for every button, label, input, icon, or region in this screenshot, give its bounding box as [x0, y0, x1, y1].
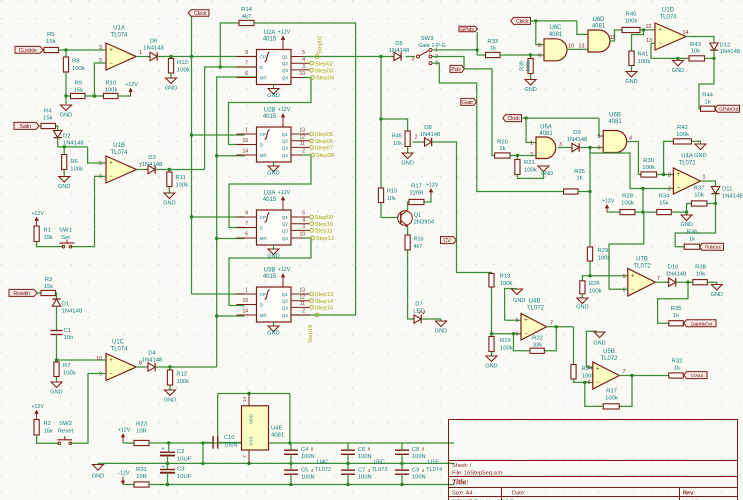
svg-text:−: −: [109, 174, 113, 180]
svg-text:SW3: SW3: [421, 36, 434, 42]
svg-text:100k: 100k: [63, 371, 76, 377]
svg-text:13: 13: [579, 44, 585, 50]
svg-text:1N4148: 1N4148: [389, 48, 410, 54]
svg-text:R34: R34: [659, 194, 671, 200]
svg-text:GND: GND: [267, 171, 279, 177]
svg-text:D2: D2: [63, 134, 71, 140]
svg-text:100N: 100N: [412, 475, 426, 481]
svg-text:R37: R37: [694, 186, 705, 192]
svg-text:Step08: Step08: [316, 153, 334, 159]
svg-text:100k: 100k: [605, 396, 618, 402]
svg-text:4015: 4015: [263, 197, 277, 203]
svg-text:D6: D6: [150, 39, 158, 45]
svg-text:3: 3: [412, 57, 415, 63]
svg-text:Step06: Step06: [315, 139, 333, 145]
svg-text:U6A: U6A: [540, 125, 552, 131]
svg-text:R33: R33: [487, 39, 499, 45]
svg-text:C8: C8: [412, 447, 419, 453]
svg-text:7: 7: [657, 276, 660, 282]
svg-text:Q4: Q4: [282, 76, 289, 81]
svg-text:1k: 1k: [689, 237, 695, 243]
svg-text:GND: GND: [60, 113, 72, 119]
svg-text:GND: GND: [58, 184, 70, 190]
svg-text:R9: R9: [75, 81, 83, 87]
svg-text:2: 2: [668, 187, 671, 193]
svg-text:GPulsOut: GPulsOut: [719, 107, 739, 113]
svg-text:Q2: Q2: [282, 299, 289, 304]
svg-text:Step14: Step14: [315, 299, 334, 305]
svg-text:TL074: TL074: [426, 467, 442, 473]
svg-text:10k: 10k: [393, 141, 402, 147]
svg-text:C6: C6: [358, 447, 365, 453]
svg-text:15k: 15k: [44, 284, 54, 290]
svg-text:U3A: U3A: [264, 191, 276, 197]
svg-text:+: +: [524, 318, 528, 324]
svg-text:U1D: U1D: [662, 8, 675, 14]
svg-text:+12V: +12V: [31, 211, 44, 217]
svg-text:TL074: TL074: [110, 33, 128, 39]
svg-text:15k: 15k: [74, 88, 84, 94]
svg-text:CP: CP: [260, 132, 266, 137]
svg-text:Step02: Step02: [315, 61, 333, 67]
svg-text:4015: 4015: [263, 37, 277, 43]
svg-text:R25: R25: [574, 169, 586, 175]
svg-text:U1E: U1E: [428, 459, 439, 465]
svg-text:2: 2: [415, 135, 418, 141]
svg-text:File: 16StepSeq.sch: File: 16StepSeq.sch: [452, 470, 502, 476]
svg-text:D3: D3: [148, 155, 156, 161]
svg-text:R11: R11: [175, 175, 185, 181]
svg-text:GateNivOut: GateNivOut: [691, 321, 713, 326]
svg-text:+12V: +12V: [278, 190, 291, 196]
svg-text:+12V: +12V: [278, 267, 291, 273]
svg-text:1: 1: [139, 50, 142, 56]
svg-text:Q4: Q4: [282, 236, 289, 241]
svg-text:+12V: +12V: [602, 199, 615, 205]
svg-text:15k: 15k: [46, 39, 56, 45]
svg-text:CV: CV: [444, 238, 452, 244]
svg-text:MR: MR: [260, 153, 268, 158]
svg-text:Q2: Q2: [282, 139, 289, 144]
svg-text:D9: D9: [573, 130, 581, 136]
svg-text:Puls: Puls: [451, 67, 461, 73]
svg-text:6: 6: [245, 232, 248, 238]
svg-text:GND: GND: [267, 93, 279, 99]
svg-text:+12V: +12V: [125, 82, 138, 88]
svg-text:100k: 100k: [676, 132, 689, 138]
svg-text:Clock: Clock: [508, 116, 521, 122]
svg-text:Q3: Q3: [282, 68, 289, 73]
svg-text:GND: GND: [164, 398, 176, 404]
svg-text:9: 9: [99, 372, 102, 378]
svg-text:100k: 100k: [70, 167, 83, 173]
svg-text:5: 5: [623, 274, 626, 280]
svg-text:GND: GND: [711, 292, 723, 298]
svg-text:−: −: [677, 186, 681, 192]
svg-text:R20: R20: [497, 140, 509, 146]
svg-text:R7: R7: [63, 363, 71, 369]
svg-text:R13: R13: [177, 60, 189, 66]
svg-text:R26: R26: [589, 281, 601, 287]
svg-text:11: 11: [300, 141, 305, 147]
svg-text:100N: 100N: [301, 454, 315, 460]
svg-text:14: 14: [242, 397, 248, 403]
svg-text:R45: R45: [392, 134, 402, 140]
svg-text:1: 1: [703, 175, 706, 181]
svg-text:7: 7: [245, 221, 248, 227]
svg-text:GND: GND: [485, 364, 497, 370]
svg-text:1N4148: 1N4148: [143, 46, 164, 52]
svg-text:Reset: Reset: [58, 429, 74, 435]
svg-text:Step12: Step12: [316, 236, 334, 242]
svg-text:Q1: Q1: [282, 292, 289, 297]
svg-text:GND: GND: [524, 87, 536, 93]
svg-text:100k: 100k: [621, 201, 634, 207]
svg-text:100N: 100N: [224, 443, 238, 449]
svg-text:R44: R44: [702, 93, 714, 99]
svg-text:100k: 100k: [175, 183, 188, 189]
svg-text:+: +: [596, 367, 600, 373]
svg-text:1N4148: 1N4148: [567, 137, 588, 143]
svg-text:+: +: [162, 464, 165, 470]
svg-text:R1: R1: [44, 228, 52, 234]
svg-text:+12V: +12V: [278, 30, 291, 36]
svg-text:4: 4: [302, 218, 305, 224]
svg-text:1k: 1k: [673, 313, 679, 319]
svg-text:TL072: TL072: [600, 356, 618, 362]
svg-text:+12V: +12V: [118, 428, 131, 434]
svg-text:2N3904: 2N3904: [414, 220, 435, 226]
svg-text:100k: 100k: [500, 281, 513, 287]
svg-text:Resetin: Resetin: [13, 291, 29, 297]
svg-text:4015: 4015: [263, 114, 277, 120]
svg-text:MR: MR: [260, 313, 268, 318]
svg-text:R23: R23: [136, 422, 148, 428]
svg-text:GND: GND: [267, 331, 279, 337]
svg-text:R38: R38: [695, 265, 707, 271]
svg-text:5: 5: [598, 134, 601, 140]
svg-text:D12: D12: [720, 42, 731, 48]
svg-text:Sheet: /: Sheet: /: [452, 463, 472, 469]
svg-text:U4E: U4E: [271, 426, 283, 432]
svg-text:4081: 4081: [271, 433, 284, 439]
svg-text:1k: 1k: [490, 46, 496, 52]
svg-text:Title:: Title:: [452, 479, 469, 486]
svg-text:Q4: Q4: [282, 153, 289, 158]
svg-text:1N4148: 1N4148: [722, 194, 743, 200]
svg-text:Step07: Step07: [315, 146, 333, 152]
svg-text:R35: R35: [671, 306, 683, 312]
svg-text:1N4148: 1N4148: [63, 141, 84, 147]
svg-text:100k: 100k: [642, 165, 655, 171]
svg-text:100N: 100N: [301, 475, 315, 481]
svg-text:4015: 4015: [263, 274, 277, 280]
svg-text:100N: 100N: [358, 454, 372, 460]
svg-text:Step01: Step01: [318, 36, 324, 54]
svg-text:Q1: Q1: [282, 215, 289, 220]
svg-text:CP: CP: [260, 292, 266, 297]
svg-text:+: +: [677, 172, 681, 178]
svg-text:R36: R36: [687, 230, 699, 236]
svg-text:100N: 100N: [412, 454, 426, 460]
svg-text:U1C: U1C: [112, 340, 125, 346]
svg-text:1N4148: 1N4148: [142, 358, 163, 364]
svg-text:R16: R16: [414, 237, 424, 243]
svg-text:11: 11: [610, 35, 616, 41]
svg-text:TL072: TL072: [315, 467, 331, 473]
svg-text:GND: GND: [694, 153, 706, 159]
svg-text:1k: 1k: [499, 146, 505, 152]
svg-text:10R: 10R: [136, 474, 147, 480]
svg-text:3: 3: [302, 64, 305, 70]
svg-text:U6D: U6D: [592, 17, 605, 23]
svg-text:U4A: U4A: [681, 154, 693, 160]
svg-text:R17: R17: [411, 184, 422, 190]
svg-text:Step03: Step03: [315, 68, 333, 74]
svg-text:GND: GND: [541, 171, 553, 177]
svg-text:12: 12: [646, 24, 652, 30]
svg-text:TL072: TL072: [633, 263, 651, 269]
svg-text:1k: 1k: [704, 100, 710, 106]
svg-text:15k: 15k: [44, 429, 54, 435]
svg-text:D8: D8: [424, 125, 432, 131]
svg-text:Gate 1-P-G: Gate 1-P-G: [418, 43, 446, 49]
svg-text:C5: C5: [301, 468, 308, 474]
svg-text:1N4148: 1N4148: [720, 49, 741, 55]
svg-text:C3: C3: [177, 467, 185, 473]
svg-text:R31: R31: [136, 467, 147, 473]
svg-text:100k: 100k: [526, 60, 532, 72]
svg-text:Q4: Q4: [282, 313, 289, 318]
svg-text:14: 14: [683, 30, 689, 36]
svg-text:Q2: Q2: [282, 61, 289, 66]
svg-text:2: 2: [99, 58, 102, 64]
svg-text:100k: 100k: [72, 66, 85, 72]
svg-text:100N: 100N: [358, 475, 372, 481]
svg-text:Size: A4: Size: A4: [452, 490, 473, 496]
svg-text:GND: GND: [680, 222, 692, 228]
svg-text:C2: C2: [177, 449, 185, 455]
svg-text:3: 3: [99, 45, 102, 51]
svg-text:U5B: U5B: [603, 349, 615, 355]
svg-text:Step05: Step05: [315, 132, 333, 138]
svg-text:5: 5: [302, 50, 305, 56]
svg-text:R40: R40: [626, 12, 638, 18]
svg-text:6: 6: [516, 332, 519, 338]
svg-text:D1: D1: [62, 302, 70, 308]
svg-text:15: 15: [242, 138, 248, 144]
svg-text:TL074: TL074: [110, 150, 128, 156]
svg-text:GND: GND: [435, 329, 447, 335]
svg-text:Q3: Q3: [282, 305, 289, 310]
svg-text:4k7: 4k7: [414, 244, 423, 250]
svg-text:1k: 1k: [576, 176, 582, 182]
svg-text:100k: 100k: [638, 59, 651, 65]
svg-text:R32: R32: [672, 359, 683, 365]
svg-text:R19: R19: [500, 338, 511, 344]
svg-text:CLockIn: CLockIn: [19, 48, 37, 54]
svg-text:3: 3: [668, 173, 671, 179]
svg-text:+12V: +12V: [426, 183, 439, 189]
svg-text:6: 6: [623, 288, 626, 294]
svg-text:100k: 100k: [524, 168, 537, 174]
svg-text:CP: CP: [260, 55, 266, 60]
svg-text:Step11: Step11: [315, 229, 333, 235]
svg-text:10n: 10n: [64, 335, 74, 341]
svg-text:GND: GND: [513, 298, 525, 304]
svg-text:7: 7: [245, 61, 248, 67]
svg-text:4081: 4081: [539, 131, 553, 137]
svg-text:Step13: Step13: [315, 292, 333, 298]
svg-text:220R: 220R: [409, 191, 423, 197]
svg-text:4081: 4081: [608, 119, 622, 125]
svg-text:4081: 4081: [592, 24, 606, 30]
svg-text:SW1: SW1: [59, 228, 72, 234]
svg-text:10k: 10k: [691, 49, 701, 55]
svg-text:MR: MR: [260, 76, 268, 81]
svg-text:R8: R8: [72, 59, 80, 65]
svg-text:TL074: TL074: [659, 15, 677, 21]
svg-text:+: +: [109, 161, 113, 167]
svg-text:+: +: [658, 28, 662, 34]
svg-text:-12V: -12V: [118, 471, 130, 477]
svg-text:+: +: [162, 446, 165, 452]
svg-text:D7: D7: [415, 302, 423, 308]
svg-text:U2A: U2A: [264, 30, 276, 36]
svg-text:100k: 100k: [105, 88, 118, 94]
svg-text:15: 15: [242, 298, 248, 304]
svg-text:−: −: [524, 331, 528, 337]
svg-text:R39: R39: [520, 61, 526, 71]
svg-text:1: 1: [245, 128, 248, 134]
svg-text:14: 14: [242, 309, 248, 315]
svg-text:R3: R3: [45, 277, 53, 283]
svg-text:+: +: [631, 273, 635, 279]
svg-text:−: −: [596, 380, 600, 386]
svg-text:R18: R18: [500, 274, 512, 280]
svg-text:8: 8: [538, 43, 541, 49]
svg-text:R15: R15: [387, 189, 397, 195]
svg-text:6: 6: [588, 380, 591, 386]
svg-text:+12V: +12V: [278, 107, 291, 113]
svg-text:R29: R29: [598, 248, 609, 254]
svg-text:R42: R42: [677, 125, 688, 131]
svg-text:10R: 10R: [136, 429, 147, 435]
svg-text:Q3: Q3: [282, 145, 289, 150]
svg-text:14: 14: [242, 149, 248, 155]
svg-text:5: 5: [588, 365, 591, 371]
svg-text:Step04: Step04: [316, 76, 335, 82]
svg-text:3: 3: [302, 224, 305, 230]
svg-text:Clock: Clock: [516, 19, 529, 25]
svg-text:U1A: U1A: [113, 26, 125, 32]
svg-text:GND: GND: [163, 201, 175, 207]
svg-text:C10: C10: [224, 435, 234, 441]
svg-text:5: 5: [99, 161, 102, 167]
svg-text:TL072: TL072: [372, 467, 388, 473]
svg-text:9: 9: [538, 54, 541, 60]
svg-text:U4B: U4B: [529, 299, 541, 305]
svg-text:D11: D11: [722, 187, 732, 193]
svg-text:+: +: [109, 48, 113, 54]
svg-text:+12V: +12V: [31, 404, 44, 410]
svg-text:TL074: TL074: [110, 346, 128, 352]
svg-text:1N4148: 1N4148: [142, 162, 163, 168]
svg-text:2: 2: [302, 149, 305, 155]
svg-text:15k: 15k: [43, 116, 53, 122]
svg-text:R22: R22: [532, 336, 543, 342]
svg-text:GND: GND: [625, 79, 637, 85]
svg-text:4: 4: [629, 136, 632, 142]
svg-text:R10: R10: [106, 81, 118, 87]
svg-text:PulsOut: PulsOut: [705, 245, 721, 251]
svg-text:Set: Set: [61, 235, 70, 241]
svg-text:C1: C1: [64, 328, 72, 334]
svg-text:100k: 100k: [500, 346, 513, 352]
svg-text:R6: R6: [70, 159, 78, 165]
svg-text:TL072: TL072: [527, 305, 545, 311]
svg-text:10UF: 10UF: [177, 474, 192, 480]
svg-text:100k: 100k: [177, 68, 190, 74]
svg-text:4081: 4081: [549, 32, 563, 38]
svg-text:100k: 100k: [176, 379, 189, 385]
svg-text:U2B: U2B: [264, 108, 276, 114]
svg-text:Step16: Step16: [308, 325, 314, 343]
svg-text:Step09: Step09: [315, 215, 333, 221]
svg-text:R27: R27: [606, 389, 617, 395]
svg-text:Q1: Q1: [282, 55, 289, 60]
svg-text:D5: D5: [395, 41, 403, 47]
svg-text:6: 6: [598, 146, 601, 152]
svg-text:−: −: [658, 41, 662, 47]
svg-text:10: 10: [299, 71, 305, 77]
svg-text:−: −: [109, 372, 113, 378]
svg-text:GPuls: GPuls: [460, 27, 474, 33]
svg-text:15k: 15k: [44, 235, 54, 241]
svg-text:7: 7: [242, 455, 248, 458]
svg-text:5: 5: [302, 211, 305, 217]
svg-text:SW2: SW2: [59, 421, 72, 427]
svg-text:5: 5: [516, 318, 519, 324]
svg-text:U3B: U3B: [264, 268, 276, 274]
svg-text:1N4148: 1N4148: [62, 309, 83, 315]
svg-text:13: 13: [299, 288, 305, 294]
svg-text:Gate: Gate: [462, 100, 473, 106]
svg-text:VDD: VDD: [249, 413, 255, 424]
svg-text:C7: C7: [358, 468, 365, 474]
svg-text:1: 1: [245, 288, 248, 294]
svg-text:R41: R41: [638, 52, 649, 58]
svg-text:12: 12: [299, 135, 305, 141]
svg-text:10k: 10k: [694, 193, 704, 199]
svg-text:U5C: U5C: [374, 459, 385, 465]
svg-text:1N4148: 1N4148: [666, 272, 687, 278]
svg-text:10UF: 10UF: [177, 457, 192, 463]
svg-text:GND: GND: [576, 305, 588, 311]
svg-text:15k: 15k: [659, 201, 669, 207]
svg-text:U4C: U4C: [317, 459, 328, 465]
svg-text:Q2: Q2: [282, 222, 289, 227]
svg-text:TL072: TL072: [678, 160, 696, 166]
svg-text:D4: D4: [148, 351, 156, 357]
svg-text:GND: GND: [672, 68, 684, 74]
svg-text:7: 7: [623, 369, 626, 375]
svg-text:GND: GND: [92, 474, 104, 480]
svg-text:R12: R12: [176, 372, 187, 378]
svg-text:R21: R21: [524, 160, 535, 166]
svg-text:100k: 100k: [589, 289, 602, 295]
svg-text:U6B: U6B: [609, 113, 621, 119]
